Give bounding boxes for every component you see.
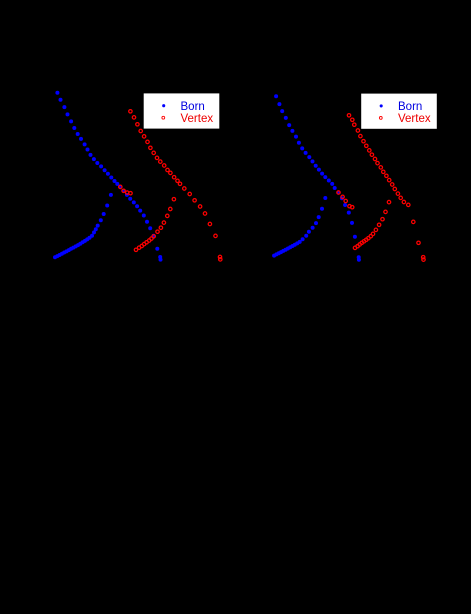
svg-text:Born: Born [398,101,422,113]
right panel: Vertex cusp points near Born curve (red open circles) [337,191,354,209]
svg-text:Vertex: Vertex [398,113,431,125]
svg-text:Born: Born [181,101,205,113]
right panel: Vertex rising branch (red open circles) [353,200,390,249]
left panel: Vertex rising branch (red open circles) [134,197,175,251]
left panel: Vertex main descending curve (red open circles) [129,110,222,262]
left panel: Born rising branch (blue dots) [53,193,113,259]
left panel: Born main descending curve (blue dots) [55,91,162,262]
right panel: Born rising branch (blue dots) [272,196,327,258]
left panel: Vertex cusp points near Born curve (red open circles) [119,185,133,195]
right panel: Vertex main descending curve (red open circles) [347,114,425,262]
legend box [144,93,220,128]
right panel: Born main descending curve (blue dots) [274,94,361,262]
svg-text:Vertex: Vertex [181,113,214,125]
legend box [361,94,437,129]
